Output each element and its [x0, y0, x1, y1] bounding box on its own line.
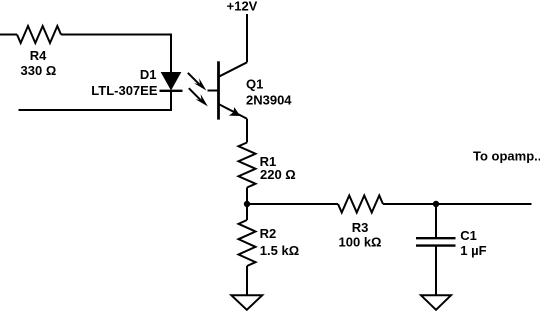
svg-text:330 Ω: 330 Ω — [21, 63, 57, 78]
wire: +12V supply down to collector — [246, 14, 248, 62]
wire: R2 bottom to ground — [246, 266, 248, 295]
svg-text:100 kΩ: 100 kΩ — [339, 234, 382, 249]
wire: R1 bottom through node A to R2 top — [246, 188, 248, 221]
resistor R3 — [338, 196, 383, 213]
wire: R4 to top-right corner and down to D1 anode — [61, 35, 171, 74]
wire: R3 to output (through node B) — [383, 203, 532, 205]
resistor R2 — [239, 220, 256, 266]
svg-text:2N3904: 2N3904 — [246, 92, 292, 107]
svg-text:1.5 kΩ: 1.5 kΩ — [260, 243, 299, 258]
wire: node B down to C1 — [435, 204, 437, 238]
svg-text:R4: R4 — [30, 48, 47, 63]
node B junction dot — [433, 201, 439, 207]
wire: emitter down to R1 — [246, 119, 248, 143]
svg-text:1 µF: 1 µF — [460, 243, 486, 258]
svg-text:220 Ω: 220 Ω — [260, 167, 296, 182]
svg-text:To opamp...: To opamp... — [473, 149, 540, 164]
svg-text:LTL-307EE: LTL-307EE — [91, 83, 158, 98]
LED D1 — [160, 73, 183, 91]
light arrow 1 (optocoupler) — [188, 73, 207, 91]
svg-text:+12V: +12V — [227, 0, 258, 14]
light arrow 2 (optocoupler) — [189, 88, 208, 106]
svg-text:R3: R3 — [352, 220, 369, 235]
resistor R1 — [239, 143, 256, 188]
capacitor C1 — [416, 238, 456, 245]
ground (under C1) — [421, 295, 451, 310]
transistor Q1 — [208, 61, 248, 119]
svg-text:C1: C1 — [460, 228, 477, 243]
svg-text:Q1: Q1 — [246, 77, 263, 92]
svg-text:D1: D1 — [140, 67, 157, 82]
node A junction dot — [244, 201, 250, 207]
svg-text:R2: R2 — [260, 226, 277, 241]
wire: left input top to R4 — [0, 34, 17, 36]
wire: C1 bottom to ground — [435, 247, 437, 296]
wire: D1 cathode down and left to open end — [19, 90, 172, 110]
wire: node A to R3 — [247, 203, 338, 205]
resistor R4 — [17, 26, 61, 43]
ground (under R2) — [231, 295, 262, 310]
